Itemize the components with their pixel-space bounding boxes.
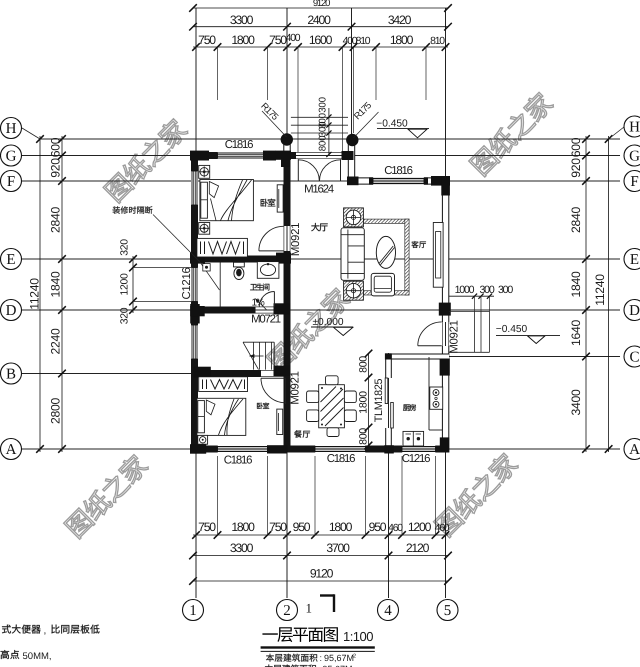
svg-text:2: 2 <box>353 653 356 659</box>
svg-text:1000: 1000 <box>455 284 475 296</box>
entrance steps <box>291 116 348 118</box>
axis circle G left <box>1 145 22 166</box>
bathroom washbasin <box>257 262 279 279</box>
front door opening threshold lines <box>296 151 342 153</box>
window C1816 in G wall <box>218 152 268 159</box>
svg-text:E: E <box>6 252 15 268</box>
svg-text:1640: 1640 <box>569 320 583 346</box>
bathroom floor drain <box>203 264 210 271</box>
svg-text:2800: 2800 <box>49 398 63 424</box>
svg-text:M0921: M0921 <box>448 320 460 353</box>
bedroom2 label 卧室 <box>257 403 263 409</box>
svg-text:920: 920 <box>569 158 583 178</box>
svg-text:750: 750 <box>198 520 216 534</box>
living room hatch band right <box>405 219 409 295</box>
svg-text:2840: 2840 <box>569 207 583 233</box>
kitchen rear door M0921 in axis5 wall <box>418 345 442 347</box>
bedroom2 bed <box>197 398 246 435</box>
axis 1 vertical line <box>195 8 197 598</box>
svg-text:300: 300 <box>318 121 329 137</box>
axis circle A right <box>624 439 640 460</box>
window C1816 in F wall <box>373 178 424 185</box>
svg-text:C1216: C1216 <box>402 453 430 465</box>
axis 4 vertical line lower <box>388 353 390 598</box>
svg-text:1800: 1800 <box>231 520 255 534</box>
bottom exterior wall A <box>191 446 449 453</box>
grid line C right part <box>448 356 620 358</box>
axis circle D right <box>624 300 640 321</box>
svg-text:810: 810 <box>356 36 371 47</box>
axis circle H left <box>22 128 40 139</box>
svg-text:9120: 9120 <box>310 567 334 581</box>
svg-text:400: 400 <box>286 33 301 44</box>
svg-text:3300: 3300 <box>230 13 254 27</box>
svg-text:750: 750 <box>269 33 287 47</box>
svg-text:1800: 1800 <box>329 520 353 534</box>
column window jamb G wall right <box>263 151 276 161</box>
interior wall C kitchen axis4-axis5 hollow <box>385 354 449 360</box>
R175 label right with leader <box>354 112 379 138</box>
svg-text:A: A <box>6 442 17 458</box>
column top-left corner <box>190 151 209 161</box>
dining table with stripes <box>319 385 345 428</box>
watermark 图纸之家 top-right <box>468 90 555 177</box>
axis circle E left <box>1 249 22 270</box>
axis circle G right <box>624 145 640 166</box>
bathroom toilet <box>234 262 245 267</box>
svg-text:2400: 2400 <box>307 13 331 27</box>
axis circle C right <box>624 346 640 367</box>
left dim vertical line inner 600/920/2840/1840/2240/2800 <box>61 136 63 452</box>
bathroom slope arrow 1% <box>255 299 266 310</box>
note line1 式大便器，比同层板低 <box>2 625 11 634</box>
svg-text::: : <box>320 653 323 663</box>
sofa side table top with fan <box>344 208 364 227</box>
svg-text:800: 800 <box>318 135 329 151</box>
svg-text:1200: 1200 <box>120 273 131 295</box>
svg-text:F: F <box>7 174 15 190</box>
svg-text:C: C <box>629 350 639 366</box>
column axis2/D <box>274 303 291 314</box>
axis 5 vertical line <box>445 8 447 598</box>
svg-text:C1816: C1816 <box>225 139 253 151</box>
svg-text:D: D <box>629 303 640 319</box>
svg-text:±0.000: ±0.000 <box>312 317 343 328</box>
rear door opening threshold lines <box>441 322 443 346</box>
svg-text:C1816: C1816 <box>224 455 252 467</box>
kitchen counter <box>428 357 430 430</box>
svg-text:M0921: M0921 <box>290 223 302 256</box>
column axis5/A corner <box>440 437 449 452</box>
svg-text:3300: 3300 <box>230 541 254 555</box>
round column R175 left <box>281 133 293 145</box>
column axis5/D <box>439 303 451 316</box>
bedroom2 door M0921 in B wall <box>261 377 286 379</box>
top extension lines <box>195 47 197 152</box>
bathroom partition line <box>219 263 221 307</box>
svg-text:−0.450: −0.450 <box>496 324 528 335</box>
svg-text:G: G <box>6 149 17 165</box>
window C1216 in left wall bathroom <box>191 268 198 302</box>
column axis1/A corner <box>190 444 206 454</box>
column F window jambs <box>369 177 373 184</box>
title 一层平面图 <box>262 627 337 642</box>
svg-text:C1816: C1816 <box>327 453 355 465</box>
column axis4/A <box>384 445 394 453</box>
staircase <box>243 341 274 343</box>
svg-text:460: 460 <box>388 523 403 534</box>
column axis2/G porch corner <box>276 151 292 160</box>
axis circle F right <box>624 171 640 192</box>
entrance steps dim chain 300/300/300/800 <box>328 108 330 155</box>
living room cabinet right wall <box>433 223 443 288</box>
svg-text:1: 1 <box>306 601 313 616</box>
svg-text:810: 810 <box>430 36 445 47</box>
svg-text:1800: 1800 <box>358 391 370 414</box>
svg-text:1: 1 <box>189 603 197 619</box>
coffee table oval <box>376 236 395 268</box>
svg-text:C1216: C1216 <box>181 267 193 299</box>
column axis2/E <box>276 253 291 264</box>
column axis5/C <box>440 359 450 376</box>
window in left wall stair room <box>191 325 198 359</box>
svg-text:300: 300 <box>318 96 329 112</box>
wall F axis3-axis5 hollow double line <box>348 178 449 185</box>
note line2 高点 50MM <box>1 650 10 659</box>
svg-text:1600: 1600 <box>309 33 333 47</box>
porch right wall axis3 H-F <box>348 140 354 185</box>
bottom dim line 3300/3700/2120 <box>193 555 448 557</box>
svg-text:H: H <box>629 120 640 136</box>
svg-text:G: G <box>629 149 640 165</box>
svg-text:1:100: 1:100 <box>343 629 373 644</box>
right dim vertical line inner 600/920/2840/1840/1640/3400 <box>585 136 587 452</box>
svg-text:950: 950 <box>293 520 311 534</box>
grid line D <box>22 309 620 311</box>
window in left wall bedroom1 <box>191 171 198 205</box>
bottom dim line 750/1800/750/950/1800/950/460/1200/460 <box>193 534 448 536</box>
grid line A <box>22 448 620 450</box>
svg-text:4: 4 <box>384 603 392 619</box>
svg-text:950: 950 <box>369 520 387 534</box>
rear steps dim chain 1000/300/300 <box>449 295 494 297</box>
axis circle A left <box>1 439 22 460</box>
svg-text:F: F <box>630 174 638 190</box>
svg-text:M1624: M1624 <box>304 183 334 195</box>
svg-text:300: 300 <box>479 284 494 296</box>
svg-text:B: B <box>6 367 16 383</box>
column axis3/F <box>347 177 359 186</box>
column axis1/D <box>190 304 200 324</box>
rear steps outside right wall <box>449 311 490 313</box>
top dim line 9120 <box>193 7 448 9</box>
dining chairs <box>326 376 339 385</box>
svg-text:1840: 1840 <box>49 271 63 297</box>
sliding door TLM1825 in axis4 partition <box>385 378 388 404</box>
svg-text:3700: 3700 <box>326 541 350 555</box>
svg-text:C1816: C1816 <box>384 165 412 177</box>
column axis2/B <box>274 366 291 377</box>
grid line H <box>40 138 620 140</box>
bottom extension lines <box>217 456 219 535</box>
front entrance double door M1624 <box>297 159 299 181</box>
grid line G <box>22 155 620 157</box>
sofa three-seat <box>341 228 364 280</box>
bathroom label 卫生间 <box>250 284 257 290</box>
svg-text:320: 320 <box>120 239 131 256</box>
svg-text:3420: 3420 <box>388 13 412 27</box>
svg-text:50MM,: 50MM, <box>23 651 52 662</box>
svg-text:600: 600 <box>569 137 583 157</box>
svg-text:1840: 1840 <box>569 271 583 297</box>
round column R175 right <box>346 134 358 146</box>
kitchen partition axis4 hollow with sliding door opening <box>385 354 391 379</box>
dining label 餐厅 <box>294 430 301 437</box>
axis circle F left <box>1 171 22 192</box>
svg-text:11240: 11240 <box>593 274 607 306</box>
svg-text:750: 750 <box>269 520 287 534</box>
bedroom1 nightstand bottom <box>199 223 210 235</box>
wall G axis1-axis3 with front door opening <box>191 152 296 159</box>
armchair <box>371 273 394 296</box>
axis circle D left <box>1 300 22 321</box>
right exterior wall axis5 hollow with rear door opening <box>442 178 449 323</box>
svg-text:1%: 1% <box>251 298 264 309</box>
svg-text:D: D <box>6 303 17 319</box>
watermark 图纸之家 center <box>265 285 352 372</box>
column G wall right of door <box>342 151 354 160</box>
axis circle B left <box>1 363 22 384</box>
partition note text 装修时隔断 <box>113 206 120 213</box>
living room label 客厅 <box>412 241 419 248</box>
title underline <box>261 646 375 648</box>
column axis2/A <box>267 445 287 453</box>
grid line B left part <box>22 373 196 375</box>
left dim vertical line outer 11240 <box>39 136 41 452</box>
door opening jamb lines axis2 <box>283 226 285 251</box>
column axis1/E <box>190 253 205 264</box>
partition columns black bits <box>385 353 392 359</box>
svg-text:750: 750 <box>198 33 216 47</box>
hall label 大厅 <box>311 223 319 231</box>
kitchen sink <box>403 431 424 446</box>
watermark 图纸之家 top-left <box>102 116 189 203</box>
svg-text:A: A <box>629 442 640 458</box>
svg-text:95,67M: 95,67M <box>324 653 354 663</box>
right dim vertical line outer 11240 <box>608 136 610 452</box>
bedroom1 wardrobe <box>197 238 248 257</box>
interior wall axis2 G-A with bedroom1 door opening <box>284 152 291 226</box>
bedroom1 door M0921 in axis2 wall <box>259 250 284 252</box>
bedroom1 bed <box>200 180 254 221</box>
axis circle E right <box>624 249 640 270</box>
kitchen stove <box>430 387 443 409</box>
interior wall B axis1-axis2 with bedroom2 door opening <box>191 370 261 377</box>
svg-text:2240: 2240 <box>49 328 63 354</box>
partition note leader <box>153 215 200 262</box>
svg-text:5: 5 <box>444 603 452 619</box>
svg-text:2120: 2120 <box>406 541 430 555</box>
watermark 图纸之家 bottom-right <box>433 451 520 538</box>
svg-text:3400: 3400 <box>569 389 583 415</box>
bedroom1 cabinet right wall <box>277 185 283 212</box>
svg-text:300: 300 <box>498 284 513 296</box>
bedroom2 nightstand <box>198 435 208 444</box>
bedroom1 nightstand top with lamp <box>199 165 210 178</box>
grid line E <box>22 258 620 260</box>
bedroom2 cabinet right wall <box>277 409 283 434</box>
bottom dim line 9120 <box>193 580 448 582</box>
sofa side table bottom with fan <box>344 281 364 300</box>
R175 label left with leader <box>262 111 286 137</box>
interior wall D axis1-axis2 with bathroom door opening <box>191 307 256 314</box>
column axis1/B <box>194 367 211 378</box>
svg-text:E: E <box>630 252 639 268</box>
top dim line 3300/2400/3420 <box>193 26 448 28</box>
svg-text:460: 460 <box>435 523 450 534</box>
svg-text:M0721: M0721 <box>251 313 281 325</box>
grid line F <box>22 180 620 182</box>
svg-text:920: 920 <box>49 158 63 178</box>
svg-text:11240: 11240 <box>28 278 42 310</box>
column axis5/F corner L <box>431 176 450 186</box>
svg-text:2: 2 <box>283 603 291 619</box>
svg-text:1200: 1200 <box>408 520 432 534</box>
watermark 图纸之家 bottom-left <box>63 452 150 539</box>
svg-text:TLM1825: TLM1825 <box>373 378 385 422</box>
svg-text:600: 600 <box>49 137 63 157</box>
bedroom1 label <box>261 199 268 207</box>
window C1816 in A wall bedroom2 <box>218 446 268 453</box>
axis 2 vertical line <box>286 8 288 598</box>
svg-text:M0921: M0921 <box>289 371 301 404</box>
svg-text:−0.450: −0.450 <box>376 119 408 130</box>
area note 本层建筑面积: 95.67M2 <box>266 654 274 662</box>
window C1216 in A wall kitchen <box>402 446 436 453</box>
axis circle H right <box>609 127 624 139</box>
interior wall E axis1-axis2 <box>191 256 291 263</box>
svg-text:H: H <box>6 121 17 137</box>
svg-text:800: 800 <box>358 356 370 373</box>
svg-text:1800: 1800 <box>231 33 255 47</box>
porch left wall axis2 H-G <box>284 139 290 153</box>
living room hatch band top <box>363 219 409 223</box>
axis 3 vertical line upper <box>351 8 353 184</box>
axis circle 5 <box>437 600 458 621</box>
svg-text:320: 320 <box>120 307 131 324</box>
left dim 320/1200/320 chain <box>132 256 134 313</box>
axis circle 4 <box>378 600 399 621</box>
axis circle 2 <box>277 600 298 621</box>
bedroom2 wardrobe <box>199 377 248 392</box>
kitchen label 厨房 <box>403 404 410 410</box>
svg-text:800: 800 <box>358 428 370 445</box>
top dim line 750/1800/750/400/1600/400/810/1800/810 <box>193 46 448 48</box>
sliding door dim chain 800/1800/800 <box>368 354 370 449</box>
area note second line clipped <box>265 665 273 667</box>
svg-text:2840: 2840 <box>49 207 63 233</box>
svg-text:1800: 1800 <box>390 33 414 47</box>
left exterior wall axis1 <box>191 152 198 453</box>
bathroom door M0721 in D wall <box>273 292 275 307</box>
window C1816 in A wall dining <box>315 446 366 453</box>
svg-text:9120: 9120 <box>313 0 330 9</box>
axis circle 1 <box>183 600 204 621</box>
svg-text:,: , <box>44 626 47 637</box>
living room hatch band bottom <box>363 291 409 295</box>
